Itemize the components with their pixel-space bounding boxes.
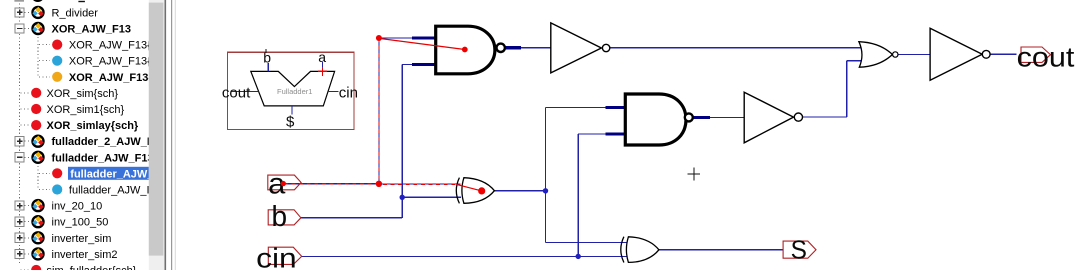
symbol pin $ bbox=[291, 106, 293, 115]
svg-text:sim_fulladder{sch}: sim_fulladder{sch} bbox=[47, 265, 137, 270]
svg-text:fulladder_AJW_F13: fulladder_AJW_F13 bbox=[52, 152, 154, 164]
svg-text:cout: cout bbox=[222, 84, 251, 101]
clipped tree row at very top bbox=[14, 0, 24, 2]
tree row fulladder_AJW_F13 y=173.3 bbox=[39, 172, 50, 174]
junction node A (xor1 out) bbox=[543, 188, 548, 193]
highlight dot XOR1 port bbox=[478, 187, 485, 194]
tree row inv_20_10 y=205.6 bbox=[25, 205, 32, 207]
wire NOR output to INV3 bbox=[898, 54, 930, 56]
wire riser A to NAND2 top input bbox=[546, 107, 607, 109]
tree rail child group 1 bbox=[37, 37, 39, 77]
svg-text:fulladder_2_AJW_F: fulladder_2_AJW_F bbox=[52, 136, 154, 148]
nand gate U1 (top) bbox=[436, 26, 495, 74]
NAND1 input stub bottom bbox=[412, 63, 437, 66]
highlight line into XOR1 port bbox=[457, 184, 482, 191]
port a pentagon bbox=[268, 175, 301, 190]
inverter U3 (top middle) bbox=[551, 23, 602, 73]
svg-text:Fulladder1: Fulladder1 bbox=[277, 87, 312, 96]
svg-text:cin: cin bbox=[339, 84, 358, 101]
instance box Fulladder1 (red outline) bbox=[228, 52, 355, 129]
tree row fulladder_AJW_I y=189.5 bbox=[39, 189, 50, 191]
highlight dot corner a riser bbox=[376, 35, 382, 41]
svg-text:b: b bbox=[263, 50, 271, 66]
NAND1 input stub top bbox=[412, 36, 437, 39]
wire INV2 output riser bbox=[846, 61, 848, 117]
port cin pentagon bbox=[268, 247, 301, 264]
wire net a: riser up to NAND1 bbox=[378, 38, 380, 184]
highlight line into NAND1 port bbox=[381, 39, 465, 50]
highlight dot NAND1 port bbox=[462, 47, 468, 53]
tree row XOR_sim1{sch} y=109.0 bbox=[21, 108, 31, 110]
svg-text:inv_20_10: inv_20_10 bbox=[52, 201, 103, 213]
highlight dot at port a bbox=[281, 181, 286, 186]
xor gate X1 (a xor b) body bbox=[456, 178, 494, 204]
tree row XOR_sim{sch} y=92.9 bbox=[21, 92, 31, 94]
adder symbol body bbox=[251, 71, 335, 106]
symbol pin cin bbox=[328, 91, 339, 93]
wire INV1 output to NOR top input bbox=[610, 47, 863, 49]
wire NAND1 output to INV1 bbox=[521, 47, 551, 49]
NAND2 input stub bottom bbox=[605, 133, 626, 136]
wire to NOR bottom input bbox=[847, 60, 864, 62]
tree rail (level 1, dotted) bbox=[19, 0, 21, 264]
tree row XOR_AJW_F13 y=28.5 bbox=[25, 28, 32, 30]
wire INV2 output horizontal bbox=[803, 116, 847, 118]
nand U2 output bubble bbox=[685, 113, 693, 121]
tree panel scrollbar bbox=[149, 0, 165, 270]
symbol pin a selected cross bbox=[318, 70, 327, 72]
tree row inverter_sim y=237.8 bbox=[25, 237, 32, 239]
wire INV3 output to port cout bbox=[990, 53, 1016, 55]
wire riser A (a xor b) vertical bbox=[545, 108, 547, 243]
tree row inv_100_50 y=221.7 bbox=[25, 221, 32, 223]
nand U1 output bubble bbox=[497, 44, 505, 52]
nand gate U2 (middle) bbox=[625, 94, 686, 145]
highlight dot junction a bbox=[376, 181, 382, 187]
tree rail child group 2 bbox=[37, 166, 39, 190]
inverter U6 bubble bbox=[982, 50, 990, 58]
NAND2 output stub bbox=[693, 116, 710, 119]
tree row XOR_AJW_F13{lay} y=76.8 bbox=[39, 76, 50, 78]
NAND2 input stub top bbox=[605, 106, 626, 109]
wire riser B (cin) vertical bbox=[577, 134, 579, 256]
symbol pin a bbox=[322, 62, 324, 71]
cell center cross bbox=[688, 173, 701, 175]
wire net a: port a to junction bbox=[284, 183, 379, 185]
highlight net a: dashed overlay port-to-junction bbox=[284, 183, 379, 185]
svg-text:XOR_AJW_F13: XOR_AJW_F13 bbox=[52, 24, 131, 36]
wire net a: to NAND1 input bbox=[379, 37, 413, 39]
wire net b: riser up to NAND1 bbox=[401, 65, 403, 218]
svg-text:XOR_simlay{sch}: XOR_simlay{sch} bbox=[47, 120, 139, 132]
svg-text:b: b bbox=[272, 201, 288, 233]
wire XOR1 output to junction A bbox=[494, 190, 545, 192]
svg-text:cin: cin bbox=[256, 243, 297, 270]
svg-text:XOR_sim{sch}: XOR_sim{sch} bbox=[47, 88, 119, 100]
svg-text:XOR_sim1{sch}: XOR_sim1{sch} bbox=[47, 104, 125, 116]
tree row XOR_AJW_F13{sch} y=60.7 bbox=[39, 60, 50, 62]
tree row fulladder_2_AJW_F y=141.2 bbox=[25, 140, 32, 142]
port cout pentagon bbox=[1021, 47, 1051, 62]
svg-text:inv_100_50: inv_100_50 bbox=[52, 217, 109, 229]
tree row XOR_simlay{sch} y=125.1 bbox=[21, 124, 31, 126]
wire net b: branch to XOR1 bottom input bbox=[402, 196, 461, 198]
splitter lines bbox=[171, 0, 172, 270]
tree row fulladder_AJW_F13 y=157.3 bbox=[25, 156, 32, 158]
junction node cin bbox=[576, 254, 581, 259]
highlight net a: dashed overlay riser bbox=[378, 38, 380, 184]
wire XOR2 output to port s bbox=[659, 249, 783, 251]
symbol pin b tick bbox=[265, 49, 267, 53]
inverter U3 bubble bbox=[602, 44, 609, 51]
or gate U5 with bubble (NOR, right) bbox=[859, 42, 893, 67]
svg-text:a: a bbox=[318, 49, 326, 65]
svg-text:inverter_sim2: inverter_sim2 bbox=[52, 249, 118, 261]
wire net b: to NAND1 bottom input bbox=[402, 64, 413, 66]
wire riser A to XOR2 top input bbox=[546, 242, 628, 244]
tree row R_divider y=12.4 bbox=[25, 11, 32, 13]
wire riser B to NAND2 bottom input bbox=[578, 133, 606, 135]
svg-text:R_divider: R_divider bbox=[52, 7, 99, 19]
symbol pin cout bbox=[231, 91, 259, 93]
inverter U6 (top right) bbox=[930, 28, 982, 80]
xor gate X2 (sum) body bbox=[621, 237, 659, 263]
port b pentagon bbox=[268, 210, 301, 225]
tree row inverter_sim2 y=253.9 bbox=[25, 253, 32, 255]
wire net cin horizontal bbox=[302, 255, 628, 257]
symbol pin b bbox=[267, 63, 269, 72]
svg-text:$: $ bbox=[286, 113, 295, 130]
port s pentagon bbox=[783, 241, 816, 258]
tree row sim_fulladder{sch} y=270.0 bbox=[21, 269, 31, 270]
wire NAND2 output to INV2 bbox=[710, 117, 744, 119]
highlight net a: dashed overlay junction-to-XOR1 bbox=[383, 183, 461, 185]
svg-text:S: S bbox=[791, 235, 807, 265]
svg-text:fulladder_AJW_I: fulladder_AJW_I bbox=[69, 185, 150, 197]
wire net b: port b horizontal bbox=[301, 217, 402, 219]
NOR U5 output bubble bbox=[893, 52, 898, 57]
svg-text:inverter_sim: inverter_sim bbox=[52, 233, 112, 245]
inverter U4 (middle) bbox=[744, 92, 793, 143]
inverter U4 bubble bbox=[794, 113, 802, 121]
wire net a: junction to XOR1 top input bbox=[379, 183, 461, 185]
panel border line bbox=[165, 0, 167, 270]
NAND1 output stub bbox=[505, 46, 521, 49]
svg-text:cout: cout bbox=[1017, 42, 1075, 73]
tree row XOR_AJW_F13{sch} y=44.6 bbox=[39, 44, 50, 46]
junction node b/XOR1 bbox=[400, 195, 405, 200]
